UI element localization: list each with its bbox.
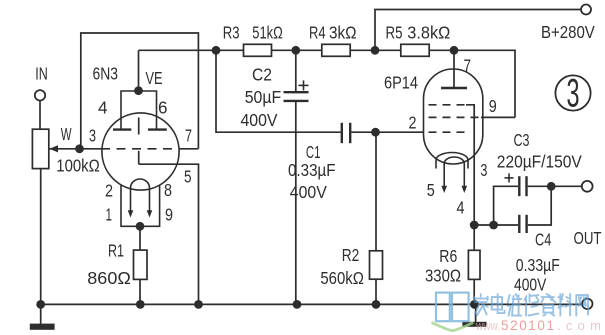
svg-text:1: 1 [106, 204, 113, 224]
svg-text:C2: C2 [252, 65, 272, 85]
svg-text:50µF: 50µF [245, 87, 282, 107]
svg-text:OUT: OUT [574, 228, 602, 248]
svg-text:7: 7 [185, 125, 192, 145]
svg-text:0.33µF: 0.33µF [516, 255, 560, 275]
svg-text:400V: 400V [514, 275, 546, 295]
svg-text:2: 2 [409, 113, 417, 133]
svg-text:6: 6 [158, 97, 168, 117]
svg-text:3kΩ: 3kΩ [329, 23, 357, 43]
svg-text:B+280V: B+280V [541, 22, 595, 42]
svg-text:C3: C3 [514, 130, 530, 150]
svg-text:51kΩ: 51kΩ [252, 22, 282, 42]
svg-text:R3: R3 [223, 22, 240, 42]
svg-text:R2: R2 [342, 245, 360, 265]
svg-text:C4: C4 [535, 230, 551, 250]
svg-text:3: 3 [480, 160, 487, 180]
svg-text:8: 8 [164, 180, 172, 200]
svg-text:400V: 400V [290, 182, 327, 202]
svg-text:W: W [61, 124, 72, 144]
svg-text:R4: R4 [309, 23, 326, 43]
svg-text:100kΩ: 100kΩ [56, 156, 100, 176]
svg-text:C1: C1 [306, 142, 321, 162]
svg-text:6P14: 6P14 [384, 72, 418, 92]
svg-text:VE: VE [146, 68, 163, 88]
svg-text:4: 4 [98, 97, 108, 117]
svg-text:400V: 400V [241, 110, 278, 130]
svg-text:IN: IN [35, 64, 48, 84]
svg-text:330Ω: 330Ω [425, 265, 461, 285]
svg-text:2: 2 [105, 180, 113, 200]
svg-text:www.: www. [475, 318, 500, 333]
svg-text:5: 5 [427, 180, 435, 200]
svg-text:560kΩ: 560kΩ [320, 268, 364, 288]
svg-text:3.8kΩ: 3.8kΩ [407, 23, 450, 43]
svg-text:5: 5 [184, 166, 192, 186]
svg-text:7: 7 [464, 56, 472, 76]
svg-text:3: 3 [89, 126, 96, 146]
svg-text:0.33µF: 0.33µF [288, 160, 336, 180]
svg-text:R1: R1 [108, 241, 124, 261]
svg-text:6N3: 6N3 [93, 64, 119, 84]
svg-text:9: 9 [165, 205, 173, 225]
svg-text:220µF/150V: 220µF/150V [497, 151, 582, 171]
svg-text:R5: R5 [386, 23, 403, 43]
svg-text:9: 9 [489, 96, 497, 116]
svg-text:860Ω: 860Ω [87, 268, 131, 288]
svg-text:4: 4 [457, 197, 465, 217]
svg-text:3: 3 [567, 72, 580, 116]
svg-text:R6: R6 [439, 246, 457, 266]
